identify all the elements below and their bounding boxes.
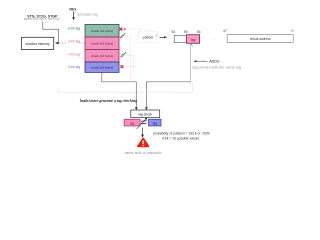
svg-text:probability of collision = 15/: probability of collision = 15/16 or ~93%: [153, 131, 210, 135]
svg-text:59: 59: [184, 30, 188, 34]
svg-text:4-bit tag: 4-bit tag: [68, 39, 80, 43]
svg-text:raises fault on mismatch: raises fault on mismatch: [124, 151, 161, 155]
svg-text:ADDG: ADDG: [209, 60, 220, 64]
svg-text:tag: tag: [191, 38, 196, 42]
svg-text:tag check: tag check: [138, 112, 152, 116]
svg-text:chunk (16 bytes): chunk (16 bytes): [91, 29, 114, 33]
svg-text:loads/stores generate a tag ch: loads/stores generate a tag checking: [80, 99, 137, 103]
svg-text:56: 56: [197, 30, 201, 34]
svg-text:tag: tag: [153, 121, 158, 125]
svg-text:63: 63: [171, 30, 175, 34]
svg-text:IRG: IRG: [69, 8, 76, 12]
svg-text:4-bit tag: 4-bit tag: [68, 27, 80, 31]
svg-text:4-bit = 16 possible values: 4-bit = 16 possible values: [162, 136, 200, 140]
svg-text:shadow memory: shadow memory: [26, 42, 51, 46]
svg-text:tag pointer with the same tag: tag pointer with the same tag: [192, 66, 241, 70]
svg-text:virtual address: virtual address: [250, 37, 271, 41]
svg-text:generates tag: generates tag: [77, 12, 97, 16]
svg-text:pointer: pointer: [143, 36, 155, 40]
svg-text:chunk (16 bytes): chunk (16 bytes): [91, 54, 114, 58]
svg-text:47: 47: [223, 29, 227, 33]
svg-text:tag: tag: [130, 121, 135, 125]
svg-text:stores the tag in memory: stores the tag in memory: [24, 17, 60, 21]
svg-text:0: 0: [292, 29, 294, 33]
svg-text:..: ..: [212, 37, 214, 41]
svg-text:4-bit tag: 4-bit tag: [68, 52, 80, 56]
svg-text:4-bit tag: 4-bit tag: [68, 65, 80, 69]
svg-text:chunk (16 bytes): chunk (16 bytes): [91, 65, 114, 69]
svg-text:chunk (16 bytes): chunk (16 bytes): [91, 41, 114, 45]
